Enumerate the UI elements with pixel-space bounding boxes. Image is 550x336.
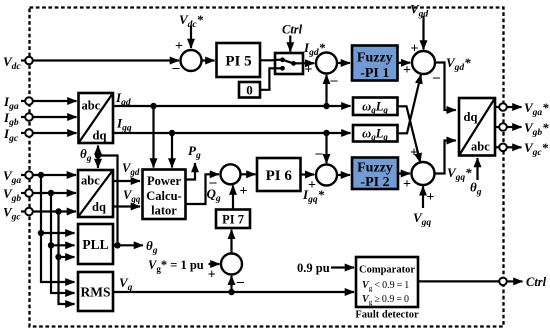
wire Igd feedback up to summer S2 — [325, 75, 327, 106]
label Vgc — [3, 205, 25, 223]
summer S7 voltage magnitude — [221, 254, 242, 275]
wire S4 to PI6 — [241, 173, 256, 175]
wire Vg-star to S7 — [209, 263, 220, 265]
wire Fuzzy-PI2 to summer S6 — [398, 172, 410, 174]
label Ctrl right — [526, 275, 547, 289]
wire Vgq feedforward up to S6 — [422, 186, 424, 208]
switch block — [275, 53, 303, 74]
block wgLg1 — [353, 98, 398, 116]
wire Vg up to summer S7 — [230, 276, 232, 292]
label theta-g under dq-abc — [470, 180, 482, 198]
svg-text:–: – — [209, 175, 218, 190]
wire Vgd feedforward down to S3 — [422, 16, 424, 50]
block PI6 — [257, 158, 301, 191]
block PLL — [78, 224, 113, 264]
label fault detector — [355, 310, 419, 321]
sign plus at S3 left — [403, 63, 411, 78]
wire Vdc-star down to S1 — [190, 26, 192, 49]
block Fuzzy-PI2 — [352, 158, 398, 191]
wire Vgq from abc-dq2 to power calculator — [113, 205, 140, 207]
junction Vgc branch — [55, 208, 61, 214]
svg-text:PI 6: PI 6 — [266, 168, 293, 184]
wire theta-g link from PLL — [98, 156, 118, 246]
junction Vg feedback — [228, 289, 234, 295]
wire Iga to abc-dq1 — [33, 100, 77, 102]
svg-text:0.9 pu: 0.9 pu — [297, 261, 330, 275]
terminal Igc — [25, 129, 33, 137]
svg-text:+: + — [427, 190, 435, 205]
wire 0.9 pu to comparator — [331, 266, 354, 268]
svg-text:dq: dq — [464, 110, 478, 124]
svg-text:–: – — [330, 73, 339, 88]
label Igc — [3, 126, 25, 144]
svg-text:–: – — [315, 146, 324, 161]
summer S4 reactive power — [221, 164, 241, 184]
wire dq-abc output a — [495, 106, 499, 108]
label Vgb-star — [524, 120, 549, 138]
junction Vga-PLL — [38, 230, 44, 236]
label Vgc-star — [524, 140, 549, 158]
block abc-dq2 voltage transform — [78, 170, 113, 217]
wire Pg output arrow — [186, 163, 196, 180]
wire S2 to Fuzzy-PI1 — [337, 62, 350, 64]
wire Igc to abc-dq1 — [33, 132, 77, 134]
junction Igd feedback — [323, 103, 329, 109]
label theta-g PLL output — [146, 238, 158, 256]
junction PLL output — [114, 242, 120, 248]
junction Vgc-PLL — [55, 254, 61, 260]
svg-text:+: + — [403, 63, 411, 78]
terminal Ctrl — [499, 278, 507, 286]
label Qg — [207, 186, 221, 204]
svg-text:–: – — [236, 275, 245, 290]
svg-text:-PI 1: -PI 1 — [360, 66, 389, 81]
block abc-dq1 current transform — [79, 93, 114, 143]
svg-text:Fuzzy: Fuzzy — [357, 51, 393, 66]
summer S6 q-axis voltage — [412, 162, 435, 185]
svg-text:–: – — [172, 61, 181, 76]
sign minus at S7 — [236, 275, 245, 290]
svg-text:abc: abc — [81, 174, 100, 188]
svg-text:+: + — [403, 177, 411, 192]
svg-text:Ctrl: Ctrl — [526, 275, 547, 289]
wire arrow Vga-star — [507, 106, 522, 108]
junction theta-g — [95, 152, 101, 158]
terminal Vgc-star — [499, 144, 507, 152]
wire arrow Vgc-star — [507, 146, 522, 148]
junction Vga branch — [38, 172, 44, 178]
wire S5 to Fuzzy-PI2 — [337, 174, 350, 176]
summer S3 d-axis voltage — [412, 51, 435, 74]
wire Fuzzy-PI1 to summer S3 — [398, 62, 411, 64]
junction Vgb branch — [48, 190, 54, 196]
svg-text:+: + — [175, 39, 183, 54]
wire PLL output theta-g — [113, 244, 143, 246]
junction Igd to power calculator — [150, 103, 156, 109]
label Iga — [3, 94, 25, 112]
svg-text:+: + — [305, 63, 313, 78]
junction Igq to power calculator — [169, 130, 175, 136]
wire Igb to abc-dq1 — [33, 116, 77, 118]
block comparator — [356, 257, 418, 307]
svg-text:-PI 2: -PI 2 — [360, 175, 389, 190]
wire Vdc to summer S1 — [33, 59, 179, 61]
terminal Vdc — [25, 57, 33, 65]
wire S3 to dq-abc — [435, 63, 456, 111]
svg-text:+: + — [240, 184, 248, 199]
label Pg — [188, 143, 201, 161]
wire PI6 to summer S5 — [301, 173, 315, 175]
wire S7 up to PI7 — [230, 230, 232, 254]
sign minus at S4 — [209, 175, 218, 190]
svg-text:lator: lator — [151, 204, 177, 218]
wire Vga to abc-dq2 — [33, 174, 76, 176]
svg-text:dq: dq — [92, 200, 106, 214]
wire PI7 up to S4 — [232, 186, 234, 210]
label Vgb — [3, 186, 25, 204]
wire dq-abc output b — [495, 126, 499, 128]
wire switch to summer S2 — [294, 62, 315, 64]
sign minus at S2 — [330, 73, 339, 88]
wire S6 to dq-abc — [435, 141, 456, 174]
wire Qg to summer S4 — [186, 174, 220, 204]
wire wgLg2 cross to S3 — [398, 75, 422, 134]
label Ctrl top — [282, 23, 303, 37]
svg-text:+: + — [410, 146, 418, 161]
label 0.9 pu — [297, 261, 330, 275]
label Vdc-star — [179, 12, 204, 30]
sign plus at S1 — [175, 39, 183, 54]
summer S2 d-axis current — [316, 53, 337, 74]
label Vg — [119, 275, 133, 293]
wire zero box to switch — [260, 68, 275, 90]
label Vgq bottom — [413, 210, 431, 228]
sign plus at S2 — [305, 63, 313, 78]
wire dq-abc output c — [495, 146, 499, 148]
label Igb — [3, 110, 25, 128]
label Igd — [115, 90, 131, 108]
svg-text:dq: dq — [93, 129, 107, 143]
svg-text:Power: Power — [147, 174, 181, 188]
label Igq — [116, 116, 132, 134]
terminal Vga — [25, 171, 33, 179]
svg-text:+: + — [208, 268, 216, 283]
svg-text:Fuzzy: Fuzzy — [357, 161, 393, 176]
label Vga — [3, 168, 25, 186]
terminal Vgb — [25, 189, 33, 197]
wire arrow Ctrl — [507, 280, 523, 282]
svg-text:PI 7: PI 7 — [222, 213, 244, 227]
wire comparator output Ctrl — [418, 280, 499, 282]
terminal Vgb-star — [499, 123, 507, 131]
block PI7 — [216, 210, 250, 229]
svg-text:RMS: RMS — [81, 285, 111, 300]
wire Vgc to abc-dq2 — [33, 210, 76, 212]
sign plus at S6 left — [403, 177, 411, 192]
svg-text:Comparator: Comparator — [359, 265, 415, 276]
wire Igd down into power calculator — [152, 106, 154, 168]
svg-text:0: 0 — [246, 83, 253, 98]
wire S1 to PI5 — [202, 59, 215, 61]
summer S5 q-axis current — [316, 165, 337, 186]
wire Vgd from abc-dq2 to power calculator — [113, 180, 140, 182]
wire Igq from abc-dq1 to wgLg2 — [113, 132, 351, 134]
wire Igq feedback down to summer S5 — [325, 133, 327, 163]
label Igq-star — [302, 187, 325, 205]
block zero reference — [239, 82, 260, 98]
label Vgq-star — [447, 165, 472, 183]
sign plus at S6 top-left — [410, 146, 418, 161]
svg-text:PI 5: PI 5 — [225, 54, 251, 70]
label Igd-star — [303, 40, 326, 58]
label theta-g left — [80, 146, 92, 164]
sign plus at S6 bottom — [427, 190, 435, 205]
block RMS — [78, 272, 113, 311]
label Vgq mid — [123, 188, 141, 204]
sign minus at S1 — [172, 61, 181, 76]
junction Vgb-PLL — [48, 242, 54, 248]
theta-g double arrow between transforms — [97, 146, 99, 169]
wire Igq down into power calculator — [171, 133, 173, 168]
sign plus at S5 — [308, 178, 316, 193]
svg-text:abc: abc — [82, 99, 101, 113]
label Vgd top — [410, 2, 428, 20]
svg-text:+: + — [308, 178, 316, 193]
wire Ctrl down into switch — [289, 36, 291, 52]
terminal Igb — [25, 113, 33, 121]
svg-text:Ctrl: Ctrl — [282, 23, 303, 37]
wire wgLg1 cross to S6 — [398, 106, 421, 162]
terminal Iga — [25, 97, 33, 105]
block wgLg2 — [353, 125, 398, 142]
wire Vga branch down to PLL and RMS — [41, 175, 75, 282]
label Vgd-star — [446, 55, 471, 73]
terminal Vgc — [25, 208, 33, 216]
svg-text:abc: abc — [471, 140, 490, 154]
summer S1 dc voltage — [181, 50, 202, 71]
sign plus at S3 top — [411, 42, 419, 57]
svg-text:Calcu-: Calcu- — [146, 189, 181, 203]
terminal Vga-star — [499, 103, 507, 111]
label Vg-star reference — [148, 258, 204, 274]
block power calculator — [143, 170, 186, 220]
wire RMS output Vg to comparator — [113, 291, 354, 293]
block dq-abc — [459, 98, 495, 156]
block PI5 — [217, 43, 261, 77]
svg-text:PLL: PLL — [82, 237, 108, 252]
svg-text:Fault detector: Fault detector — [355, 310, 419, 321]
block Fuzzy-PI1 — [352, 46, 398, 82]
wire Vgb branch down to PLL and RMS — [51, 193, 75, 293]
wire PI5 to switch — [260, 59, 275, 61]
sign plus at S7 — [208, 268, 216, 283]
sign minus at S5 — [315, 146, 324, 161]
wire Igd from abc-dq1 to wgLg1 — [113, 105, 351, 107]
label Vgd mid — [122, 161, 140, 177]
wire Vgc branch down to PLL and RMS — [59, 212, 75, 305]
wire Vgb to abc-dq2 — [33, 192, 76, 194]
sign plus at S4 — [240, 184, 248, 199]
wire arrow Vgb-star — [507, 126, 522, 128]
wire theta-g up into dq-abc — [476, 158, 478, 180]
svg-text:–: – — [432, 70, 441, 85]
sign minus at S3 bottom — [432, 70, 441, 85]
junction Igq feedback — [323, 130, 329, 136]
label Vdc — [3, 54, 25, 72]
label Vga-star — [524, 100, 549, 118]
